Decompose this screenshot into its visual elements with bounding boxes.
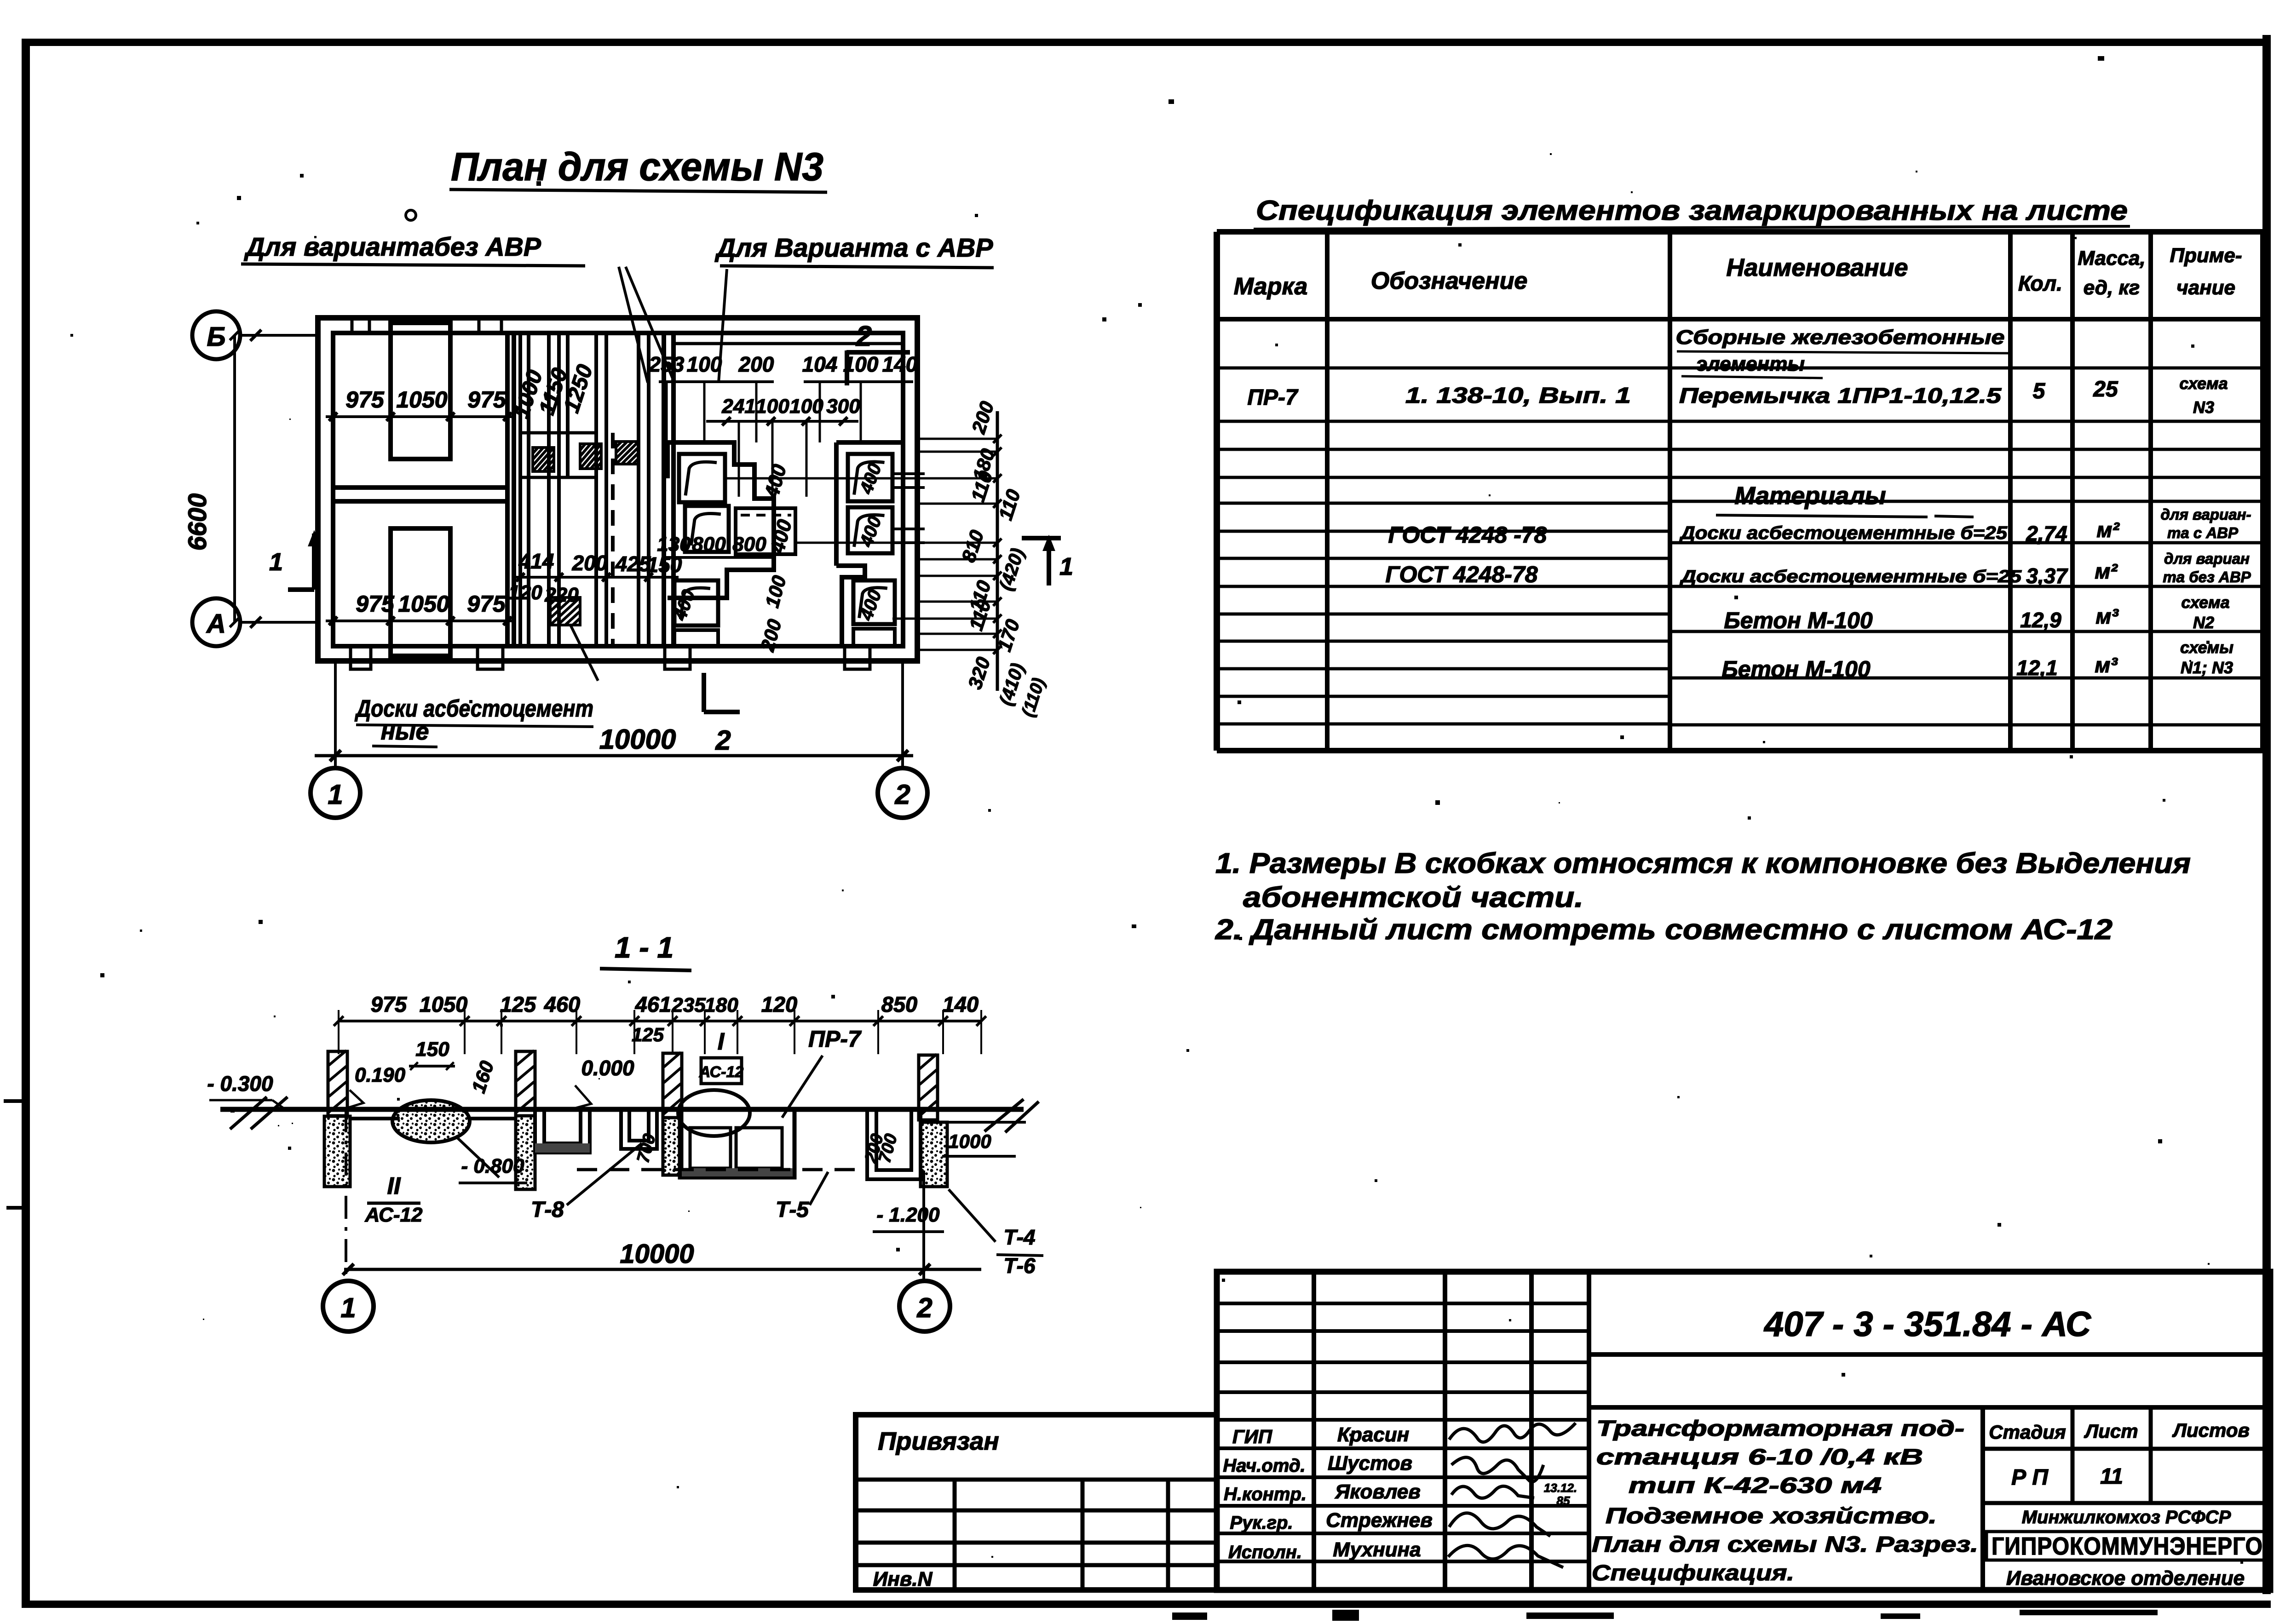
section wall column 3: [663, 1053, 682, 1118]
plan title underline: [449, 189, 827, 192]
title block vertical 3: [1529, 1272, 1534, 1590]
border frame right: [2262, 35, 2271, 1594]
left margin tick a: [4, 1099, 22, 1103]
PR-7 leader: [782, 1056, 823, 1118]
axis circle 2: [878, 768, 927, 818]
nach otd signature: [1451, 1458, 1543, 1482]
T-4 leader: [949, 1189, 996, 1242]
lens leader: [455, 1136, 499, 1177]
svg-text:13.12.: 13.12.: [1544, 1481, 1577, 1495]
svg-text:100: 100: [755, 395, 789, 418]
cell mid dashed box: [736, 508, 795, 554]
spec table header bottom: [1217, 317, 2262, 321]
svg-text:II: II: [387, 1173, 401, 1199]
section witness lines: [338, 1010, 340, 1054]
svg-text:для вариан: для вариан: [2164, 550, 2250, 567]
top wall door jamb 2: [478, 318, 481, 333]
svg-text:460: 460: [544, 992, 580, 1016]
hatch square 2: [580, 444, 601, 469]
channel wall line b: [527, 333, 530, 646]
section mark 2 bottom: [702, 673, 706, 712]
section axis circle 1: [323, 1281, 374, 1331]
floor slab left a: [350, 1108, 400, 1111]
svg-text:100: 100: [687, 352, 722, 376]
axis circle A: [192, 598, 240, 646]
small table privyazan outline: [856, 1415, 1217, 1590]
svg-text:975: 975: [371, 992, 407, 1016]
svg-text:Материалы: Материалы: [1734, 482, 1886, 510]
svg-text:1: 1: [269, 548, 283, 576]
svg-text:Подземное хозяйство.: Подземное хозяйство.: [1606, 1504, 1937, 1528]
section ground line: [220, 1107, 1024, 1112]
svg-text:100: 100: [789, 395, 823, 418]
scan specks: [1275, 344, 1278, 346]
ground break right: [984, 1099, 1024, 1131]
svg-text:850: 850: [881, 992, 917, 1016]
svg-text:станция 6-10 /0,4 кВ: станция 6-10 /0,4 кВ: [1596, 1445, 1923, 1469]
H block top room: [391, 323, 450, 459]
svg-text:5: 5: [2033, 379, 2046, 403]
channel wall line f: [594, 333, 598, 646]
svg-text:Бетон М-100: Бетон М-100: [1724, 608, 1873, 633]
floor slab left b: [468, 1108, 516, 1111]
stadia row bottom: [1983, 1501, 2270, 1505]
stray dot d: [1435, 800, 1440, 805]
svg-text:407 - 3 - 351.84 - АС: 407 - 3 - 351.84 - АС: [1763, 1305, 2091, 1344]
small table row line d: [856, 1563, 1217, 1567]
channel U 1: [535, 1109, 590, 1153]
svg-text:Красин: Красин: [1337, 1423, 1409, 1446]
svg-text:0.190: 0.190: [355, 1064, 406, 1086]
T-5 leader: [810, 1172, 828, 1205]
border frame top: [22, 39, 2271, 46]
section wall column 4: [919, 1055, 938, 1120]
dashed level line: [577, 1168, 867, 1171]
section wall column 2: [516, 1051, 535, 1116]
section axis 1 stem: [345, 1109, 347, 1282]
section mark 1 left: [288, 587, 314, 592]
svg-text:А: А: [206, 609, 226, 639]
svg-text:2. Данный лист смотреть со: 2. Данный лист смотреть совместно с лист…: [1215, 914, 2113, 946]
axis A leader: [240, 621, 318, 624]
svg-text:975: 975: [467, 591, 506, 617]
spec table rows right region: [1670, 367, 2262, 370]
stray dot e: [1132, 924, 1136, 928]
doc lower line: [1589, 1405, 2270, 1410]
svg-text:м²: м²: [2096, 518, 2120, 542]
svg-text:Т-5: Т-5: [776, 1198, 809, 1222]
svg-text:800: 800: [732, 533, 766, 556]
right cell block outline: [836, 442, 903, 646]
svg-text:схема: схема: [2179, 374, 2228, 393]
left cell block outline: [668, 442, 774, 598]
svg-text:Ивановское отделение: Ивановское отделение: [2006, 1567, 2245, 1590]
stadia header underline: [1983, 1447, 2270, 1451]
label bez AVR underline: [241, 264, 585, 266]
svg-text:Сборные железобетонные: Сборные железобетонные: [1676, 326, 2005, 349]
ground break left: [230, 1097, 267, 1129]
right dim column line: [996, 411, 999, 691]
cell right bottom: [853, 580, 895, 624]
title block minigrid rows: [1217, 1302, 1589, 1305]
svg-text:120: 120: [508, 581, 542, 604]
svg-text:для вариан-: для вариан-: [2161, 506, 2251, 523]
H block bottom room: [391, 528, 450, 656]
wall between left rooms: [333, 485, 507, 490]
title block vertical 2: [1443, 1272, 1447, 1590]
svg-text:Для Варианта с АВР: Для Варианта с АВР: [714, 233, 994, 263]
cell bottom-left a: [674, 580, 718, 625]
channel wall line g: [604, 333, 608, 646]
section axis circle 2: [899, 1281, 950, 1331]
svg-text:125: 125: [632, 1024, 664, 1045]
border frame bottom: [22, 1601, 2271, 1608]
mid structure inner b: [736, 1128, 782, 1168]
svg-text:6600: 6600: [183, 494, 212, 551]
svg-text:Стадия: Стадия: [1989, 1421, 2066, 1443]
bottom wall sill 3: [665, 646, 690, 669]
svg-text:АС-12: АС-12: [365, 1204, 423, 1226]
svg-text:та с АВР: та с АВР: [2167, 524, 2239, 541]
svg-text:104: 104: [802, 352, 838, 376]
channel wall line i: [647, 333, 650, 646]
svg-text:Для вариантабез АВР: Для вариантабез АВР: [243, 232, 541, 262]
foundation left: [324, 1116, 350, 1187]
channel U 1 fill: [535, 1143, 590, 1153]
hatch square 1: [533, 448, 554, 471]
channel wall line e: [566, 333, 570, 477]
svg-text:975: 975: [356, 591, 395, 617]
svg-text:Шустов: Шустов: [1328, 1452, 1412, 1475]
description vs stadia vertical: [1980, 1407, 1985, 1590]
svg-text:ПР-7: ПР-7: [808, 1026, 862, 1052]
cell top-left: [679, 454, 725, 502]
svg-text:Приме-: Приме-: [2170, 244, 2242, 267]
section mark 1 right: [1022, 536, 1061, 540]
svg-text:180: 180: [704, 994, 738, 1016]
svg-text:Бетон М-100: Бетон М-100: [1721, 656, 1871, 682]
svg-text:25: 25: [2093, 377, 2118, 402]
border frame left: [22, 39, 30, 1606]
svg-text:N1; N3: N1; N3: [2181, 658, 2233, 677]
stadia grid vertical a: [2071, 1407, 2075, 1503]
channel wall line h: [637, 333, 640, 646]
svg-text:0.000: 0.000: [581, 1056, 634, 1080]
svg-text:ПР-7: ПР-7: [1247, 385, 1299, 410]
mid structure oval: [678, 1090, 750, 1136]
top wall door jamb 1: [351, 318, 354, 333]
section mark 2 top: [846, 350, 910, 355]
svg-text:Т-8: Т-8: [531, 1198, 564, 1222]
bottom smudge d: [1881, 1613, 1920, 1619]
doc number cell line: [1589, 1352, 2270, 1357]
cell right top: [848, 454, 892, 501]
section axis 2 stem: [922, 1171, 925, 1282]
svg-text:Спецификация.: Спецификация.: [1592, 1561, 1794, 1585]
dim 6600 line: [233, 335, 236, 622]
foundation under column 3: [663, 1118, 682, 1175]
stray dot a: [536, 181, 541, 186]
plan inner wall rectangle: [333, 333, 903, 646]
svg-text:тип К-42-630 м4: тип К-42-630 м4: [1629, 1474, 1882, 1498]
svg-text:Минжилкомхоз РСФСР: Минжилкомхоз РСФСР: [2022, 1507, 2231, 1527]
plan outer wall rectangle: [318, 318, 917, 661]
label nye underline: [372, 746, 437, 747]
svg-text:- 0.300: - 0.300: [207, 1072, 273, 1096]
svg-text:3,37: 3,37: [2026, 564, 2068, 588]
leader line bez AVR 1: [619, 267, 648, 383]
title block vertical 4: [1587, 1272, 1591, 1590]
spec table verticals: [1214, 232, 1220, 751]
cell right bottom b: [853, 629, 895, 646]
small table col line c: [1166, 1480, 1170, 1590]
axis 1 stem: [334, 661, 337, 767]
svg-text:Стрежнев: Стрежнев: [1326, 1509, 1433, 1532]
svg-text:Листов: Листов: [2172, 1419, 2250, 1441]
giprokommunenergo box: [1986, 1532, 2268, 1560]
dim line 975-1050-975 bottom: [326, 620, 512, 622]
small table row line b: [856, 1509, 1217, 1513]
spec table rows left region: [1217, 367, 1670, 370]
svg-text:абонентской части.: абонентской части.: [1243, 882, 1583, 913]
svg-text:Нач.отд.: Нач.отд.: [1223, 1456, 1305, 1476]
svg-text:2,74: 2,74: [2026, 522, 2067, 545]
axis 2 stem: [901, 661, 904, 767]
T-8 leader: [567, 1143, 642, 1205]
section wall column 1: [328, 1051, 347, 1116]
dim line mid 414-200-425-150: [514, 576, 679, 579]
leader line s AVR: [719, 269, 727, 383]
svg-text:Кол.: Кол.: [2018, 271, 2062, 295]
svg-text:Рук.гр.: Рук.гр.: [1230, 1513, 1293, 1533]
svg-text:130: 130: [657, 533, 691, 556]
svg-text:План для схемы N3. Разрез.: План для схемы N3. Разрез.: [1592, 1532, 1978, 1557]
svg-text:элементы: элементы: [1696, 353, 1805, 375]
mid structure inner a: [690, 1128, 731, 1168]
svg-text:Доски асбестоцементные б=25: Доски асбестоцементные б=25: [1679, 567, 2022, 586]
svg-text:Марка: Марка: [1234, 273, 1308, 300]
svg-text:План для схемы N3: План для схемы N3: [451, 145, 823, 189]
bottom wall sill 1: [351, 646, 371, 669]
svg-text:12,1: 12,1: [2016, 656, 2058, 680]
svg-text:Инв.N: Инв.N: [873, 1568, 933, 1590]
channel cross line upper: [520, 431, 596, 435]
svg-text:чание: чание: [2176, 276, 2235, 299]
svg-text:Исполн.: Исполн.: [1228, 1542, 1302, 1562]
cell mid-left: [685, 506, 729, 552]
svg-text:85: 85: [1557, 1494, 1570, 1508]
ruk gr signature: [1449, 1513, 1550, 1536]
svg-text:Т-4: Т-4: [1004, 1225, 1036, 1249]
svg-text:Спецификация элементов замар: Спецификация элементов замаркированных н…: [1256, 195, 2128, 226]
svg-text:10000: 10000: [620, 1239, 694, 1269]
svg-text:120: 120: [761, 992, 797, 1016]
cell bottom-left b: [674, 630, 718, 646]
svg-text:125: 125: [500, 992, 536, 1016]
svg-text:200: 200: [738, 352, 774, 376]
svg-text:1: 1: [340, 1292, 356, 1323]
svg-text:Б: Б: [207, 322, 225, 352]
section title underline: [600, 969, 691, 970]
svg-text:та без АВР: та без АВР: [2163, 568, 2251, 585]
svg-text:2: 2: [916, 1292, 932, 1323]
svg-text:ед, кг: ед, кг: [2084, 276, 2140, 299]
svg-text:I: I: [718, 1028, 725, 1055]
svg-text:N2: N2: [2193, 613, 2214, 632]
spec table title underline: [1254, 226, 2130, 229]
svg-text:Яковлев: Яковлев: [1335, 1481, 1421, 1503]
small table row line a: [856, 1478, 1217, 1482]
partition wall left rooms vs channels: [505, 333, 510, 646]
svg-text:2: 2: [894, 779, 910, 810]
svg-text:241: 241: [721, 395, 755, 418]
channel cross line lower: [520, 476, 596, 479]
gip signature: [1449, 1423, 1576, 1442]
small table col line a: [953, 1480, 957, 1590]
svg-text:975: 975: [345, 387, 385, 413]
svg-text:Трансформаторная под-: Трансформаторная под-: [1596, 1417, 1964, 1441]
svg-text:АС-12: АС-12: [699, 1063, 744, 1081]
cell right mid: [848, 507, 892, 553]
svg-text:220: 220: [544, 584, 579, 606]
bottom wall sill 4: [845, 646, 870, 669]
foundation right: [921, 1122, 947, 1187]
right top dim row line: [659, 380, 774, 383]
svg-text:1. 138-10, Вып. 1: 1. 138-10, Вып. 1: [1405, 384, 1631, 408]
svg-text:975: 975: [467, 387, 507, 413]
axis circle B: [192, 311, 240, 359]
svg-text:- 0.800: - 0.800: [461, 1155, 525, 1177]
svg-text:300: 300: [826, 395, 860, 418]
label doski underline: [356, 725, 593, 727]
title block vertical 1: [1312, 1272, 1316, 1590]
section dim 10000 line: [344, 1268, 981, 1271]
svg-text:235: 235: [671, 994, 706, 1016]
svg-text:Лист: Лист: [2084, 1420, 2138, 1442]
svg-text:Доски асбестоцементные б=25: Доски асбестоцементные б=25: [1679, 523, 2008, 543]
svg-text:140: 140: [943, 992, 979, 1016]
svg-text:253: 253: [649, 352, 685, 376]
svg-text:12,9: 12,9: [2020, 608, 2061, 632]
right room inner top line: [673, 342, 903, 345]
svg-text:Масса,: Масса,: [2078, 247, 2145, 270]
title block outline: [1217, 1272, 2270, 1590]
svg-text:Перемычка 1ПР1-10,12.5: Перемычка 1ПР1-10,12.5: [1679, 384, 2002, 407]
cell stub line mid: [892, 528, 925, 530]
svg-text:ГИПРОКОММУНЭНЕРГО: ГИПРОКОММУНЭНЕРГО: [1992, 1532, 2263, 1560]
svg-text:м³: м³: [2095, 604, 2119, 628]
right leader lines: [917, 438, 997, 440]
svg-text:Наименование: Наименование: [1726, 254, 1908, 281]
dim line 130-800: [664, 556, 773, 559]
svg-text:м³: м³: [2095, 653, 2118, 677]
svg-text:1050: 1050: [398, 591, 449, 617]
ispoln signature: [1448, 1545, 1563, 1567]
svg-text:ГОСТ 4248-78: ГОСТ 4248-78: [1385, 562, 1537, 587]
small circle mark above label: [406, 210, 416, 220]
plan dim 10000 line: [315, 754, 913, 757]
channel dashed line: [611, 433, 615, 646]
channel wall line d: [557, 333, 561, 646]
svg-text:100: 100: [843, 352, 879, 376]
svg-text:Обозначение: Обозначение: [1371, 268, 1528, 294]
svg-text:1050: 1050: [396, 387, 447, 413]
channel U right: [867, 1109, 921, 1179]
svg-text:1000: 1000: [948, 1130, 991, 1152]
svg-text:1: 1: [1059, 553, 1073, 580]
channel wall line a: [518, 333, 522, 646]
leader line bez AVR 2: [626, 267, 674, 383]
mid structure stipple: [682, 1168, 793, 1176]
svg-text:1: 1: [328, 779, 343, 810]
stadia grid vertical b: [2149, 1407, 2153, 1503]
svg-text:10000: 10000: [599, 724, 676, 755]
section top dim line: [339, 1020, 981, 1022]
left margin tick b: [6, 1206, 23, 1210]
dim line 975-1050-975 top: [326, 415, 512, 418]
axis circle 1: [311, 768, 360, 818]
bottom smudge e: [2020, 1610, 2158, 1615]
bottom smudge c: [1526, 1613, 1614, 1619]
svg-text:ГОСТ 4248 -78: ГОСТ 4248 -78: [1388, 522, 1547, 548]
spec table horizontal top: [1217, 229, 2262, 235]
hatch square leader: [570, 625, 598, 681]
svg-text:схема: схема: [2181, 593, 2229, 612]
bottom smudge b: [1332, 1610, 1359, 1621]
hatch square 4: [550, 597, 580, 625]
axis B leader: [240, 334, 318, 337]
svg-text:425: 425: [615, 552, 651, 576]
svg-text:Привязан: Привязан: [878, 1427, 999, 1455]
svg-text:414: 414: [518, 549, 554, 573]
small table row line c: [856, 1541, 1217, 1545]
spec table bottom: [1217, 748, 2262, 753]
svg-text:Н.контр.: Н.контр.: [1224, 1484, 1307, 1504]
lens detail blob: [392, 1100, 470, 1142]
label s AVR underline: [720, 266, 994, 268]
channel wall line c: [547, 333, 551, 646]
svg-text:2: 2: [715, 725, 731, 756]
channel U 2: [621, 1109, 657, 1149]
n kontr signature: [1451, 1486, 1534, 1498]
foundation under column 2: [516, 1116, 535, 1189]
svg-text:ГИП: ГИП: [1232, 1426, 1272, 1447]
hatch square 3: [616, 442, 639, 464]
svg-text:2: 2: [856, 321, 872, 352]
cell stub line top: [892, 472, 925, 475]
stray dot c: [2098, 56, 2104, 61]
svg-text:1 - 1: 1 - 1: [615, 931, 673, 964]
mid structure body: [680, 1109, 794, 1177]
svg-text:ные: ные: [381, 718, 429, 745]
svg-text:1. Размеры В скобках относятся: 1. Размеры В скобках относятся к компоно…: [1215, 848, 2191, 879]
svg-text:800: 800: [692, 533, 726, 556]
bottom wall sill 2: [478, 646, 503, 669]
svg-text:461: 461: [635, 992, 671, 1016]
partition channels vs right rooms: [662, 333, 666, 646]
svg-text:150: 150: [415, 1038, 449, 1061]
stray dot b: [1169, 99, 1174, 104]
svg-text:м²: м²: [2095, 559, 2118, 583]
svg-text:N3: N3: [2193, 398, 2214, 417]
svg-text:Р П: Р П: [2011, 1465, 2049, 1490]
small table col line b: [1081, 1480, 1085, 1590]
svg-text:11: 11: [2100, 1464, 2123, 1489]
bottom smudge a: [1172, 1613, 1207, 1620]
svg-text:1050: 1050: [420, 992, 468, 1016]
svg-text:140: 140: [882, 352, 918, 376]
witness lines right dims: [666, 382, 668, 442]
